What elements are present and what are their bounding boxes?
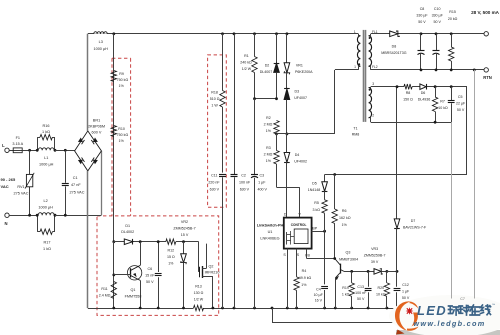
svg-text:D5: D5: [312, 182, 317, 186]
wire L input: [9, 150, 13, 152]
node RV1 top: [28, 149, 31, 152]
svg-text:R18: R18: [211, 90, 218, 94]
resistor R10: [111, 126, 116, 137]
svg-text:Q2: Q2: [209, 265, 214, 269]
svg-text:275 VAC: 275 VAC: [70, 190, 85, 194]
svg-text:BP: BP: [312, 227, 317, 231]
node top bus R9: [112, 32, 115, 35]
diode D5: [324, 175, 326, 182]
node rail subwire: [271, 307, 274, 310]
transistor Q3: [335, 259, 340, 265]
node C8 bottom: [420, 69, 423, 72]
svg-text:1 µF: 1 µF: [258, 181, 266, 185]
svg-text:Q1: Q1: [131, 288, 136, 292]
svg-text:www.ledgb.com: www.ledgb.com: [413, 319, 485, 328]
varistor RV1: [29, 150, 31, 215]
svg-text:2 MΩ: 2 MΩ: [264, 123, 273, 127]
capacitor C2: [234, 34, 236, 174]
resistor R19: [351, 271, 353, 283]
svg-text:1%: 1%: [119, 84, 125, 88]
wire Y cap right: [474, 70, 476, 299]
svg-text:D7: D7: [411, 219, 416, 223]
wire R9 column: [113, 34, 115, 242]
node R7 bottom: [434, 121, 437, 124]
svg-text:BAV21WS-7-F: BAV21WS-7-F: [403, 226, 427, 230]
node sense R6: [333, 173, 336, 176]
node R15 top: [450, 32, 453, 35]
resistor R12: [166, 239, 176, 244]
svg-text:100 nF: 100 nF: [355, 291, 367, 295]
wire S pin to rail: [287, 249, 289, 308]
svg-text:MBRS4201T3G: MBRS4201T3G: [381, 51, 407, 55]
dashed box dimming/bleeder block: [97, 216, 219, 316]
secondary winding: [369, 36, 372, 66]
node C5 top: [450, 85, 453, 88]
svg-text:C11: C11: [211, 174, 217, 178]
node Q1 collector: [139, 240, 142, 243]
svg-text:C4: C4: [316, 287, 321, 291]
svg-text:C8: C8: [420, 7, 425, 11]
svg-text:50 V: 50 V: [457, 108, 465, 112]
capacitor C5: [451, 87, 453, 101]
svg-text:R1: R1: [244, 54, 249, 58]
svg-text:R8: R8: [406, 91, 411, 95]
node rail C3: [253, 307, 256, 310]
svg-text:39 V: 39 V: [371, 260, 379, 264]
logo background: [396, 330, 500, 335]
resistor R5: [322, 200, 327, 213]
logo chinese text: [449, 306, 459, 315]
node RV1 bottom: [28, 214, 31, 217]
node C8 top: [420, 32, 423, 35]
svg-text:2 MΩ: 2 MΩ: [264, 153, 273, 157]
svg-text:1000 µH: 1000 µH: [39, 163, 54, 167]
svg-text:3.15 A: 3.15 A: [12, 142, 23, 146]
svg-text:VAC: VAC: [1, 184, 9, 189]
node R15 bottom: [450, 69, 453, 72]
capacitor C6: [158, 242, 160, 272]
node R7 top: [434, 85, 437, 88]
logo K mark: [395, 301, 419, 334]
svg-text:1%: 1%: [266, 129, 272, 133]
svg-text:R11: R11: [101, 287, 107, 291]
svg-text:90 - 265: 90 - 265: [1, 177, 16, 182]
ic U1 LinkSwitch-PH: [284, 218, 312, 249]
svg-text:C2: C2: [241, 174, 246, 178]
wire bias pin3: [371, 86, 404, 88]
svg-text:15 nF: 15 nF: [145, 274, 155, 278]
wire R11 column: [113, 242, 115, 308]
svg-text:P6KE200A: P6KE200A: [295, 70, 313, 74]
svg-text:R10: R10: [118, 127, 125, 131]
wire VR3 to C12: [387, 271, 397, 273]
diode D1: [124, 239, 132, 245]
node Q1 base tap: [112, 274, 115, 277]
wire Y cap left: [451, 122, 453, 298]
wire output plus: [371, 33, 390, 35]
node rail VR2: [182, 307, 185, 310]
wire RTN: [371, 69, 484, 71]
node C10 top: [435, 32, 438, 35]
node top bus R18: [221, 32, 224, 35]
svg-text:BR1: BR1: [93, 119, 100, 123]
svg-text:L2: L2: [43, 199, 47, 203]
svg-text:C6: C6: [147, 267, 152, 271]
wire drain node: [277, 133, 336, 135]
diode D6: [420, 84, 426, 90]
svg-text:D1: D1: [125, 224, 130, 228]
node rail C11: [221, 307, 224, 310]
wire N riser to bridge: [101, 151, 103, 215]
svg-text:R15: R15: [449, 10, 456, 14]
svg-text:VR2: VR2: [181, 220, 188, 224]
svg-text:R2: R2: [266, 116, 271, 120]
resistor R4: [294, 277, 299, 291]
svg-text:D: D: [284, 212, 287, 216]
svg-text:UF4007: UF4007: [294, 96, 307, 100]
wire F1 to L1: [22, 150, 37, 152]
resistor R2: [274, 121, 279, 135]
svg-text:R4: R4: [302, 269, 307, 273]
diode D2: [276, 34, 278, 63]
svg-text:2KBP06M: 2KBP06M: [88, 125, 105, 129]
capacitor C3: [254, 99, 256, 175]
svg-text:VR3: VR3: [371, 247, 378, 251]
svg-text:10 µF: 10 µF: [314, 293, 324, 297]
svg-text:3 kΩ: 3 kΩ: [312, 208, 320, 212]
svg-text:1 W: 1 W: [211, 103, 218, 107]
svg-text:330 µF: 330 µF: [432, 14, 444, 18]
node rail R4: [295, 307, 298, 310]
svg-text:2.4 MΩ: 2.4 MΩ: [99, 294, 111, 298]
svg-text:ZMM5245B-7: ZMM5245B-7: [173, 227, 195, 231]
svg-text:15 Ω: 15 Ω: [167, 255, 175, 259]
svg-text:150 Ω: 150 Ω: [403, 98, 413, 102]
node rail Q3 emitter: [334, 307, 337, 310]
svg-text:100 nF: 100 nF: [239, 181, 251, 185]
svg-text:400 V: 400 V: [257, 188, 267, 192]
svg-text:C12: C12: [402, 283, 409, 287]
node top bus R1: [253, 32, 256, 35]
inductor L1: [38, 148, 54, 151]
svg-text:FMMT558: FMMT558: [125, 295, 142, 299]
node C1 top: [64, 149, 67, 152]
svg-text:F1: F1: [16, 136, 20, 140]
wire top bus: [88, 33, 359, 35]
wire bridge minus to bottom rail: [87, 171, 89, 308]
capacitor C11: [219, 174, 226, 176]
node top bus D2: [275, 32, 278, 35]
terminal output plus: [484, 32, 488, 36]
svg-text:1/2 W: 1/2 W: [194, 298, 204, 302]
inductor L2: [38, 213, 54, 215]
capacitor C1: [65, 150, 67, 182]
svg-text:1 kΩ: 1 kΩ: [42, 130, 50, 134]
svg-text:1: 1: [354, 30, 356, 34]
diode D7: [396, 87, 398, 219]
node rail Q2 source: [212, 307, 215, 310]
capacitor C4: [324, 231, 326, 284]
node C10 bottom: [435, 69, 438, 72]
node rail R11: [112, 307, 115, 310]
svg-text:49.9 kΩ: 49.9 kΩ: [299, 276, 312, 280]
svg-text:1%: 1%: [301, 283, 307, 287]
svg-text:330 µF: 330 µF: [416, 14, 428, 18]
wire N input: [9, 215, 37, 217]
svg-text:R16: R16: [43, 124, 50, 128]
svg-text:U1: U1: [268, 230, 273, 234]
svg-text:240 kΩ: 240 kΩ: [240, 61, 252, 65]
dashed box R9/R10 damper network: [112, 57, 131, 59]
svg-text:630 V: 630 V: [210, 188, 220, 192]
svg-text:R12: R12: [168, 249, 175, 253]
resistor R6: [334, 175, 336, 210]
primary winding: [358, 34, 360, 36]
resistor R18: [222, 34, 224, 91]
wire bridge plus to top bus: [87, 34, 89, 131]
wire R4 pin: [296, 249, 298, 277]
svg-text:1N4148: 1N4148: [308, 188, 321, 192]
svg-text:R17: R17: [44, 241, 51, 245]
wire L1 to bridge: [55, 150, 75, 152]
svg-text:1000 µH: 1000 µH: [38, 205, 53, 209]
svg-text:N: N: [4, 221, 7, 226]
resistor R3: [274, 151, 279, 165]
svg-text:D4: D4: [295, 153, 300, 157]
resistor R20: [386, 271, 388, 283]
wire feedback sense: [325, 174, 467, 176]
svg-text:50 V: 50 V: [418, 20, 426, 24]
wire R1 D2 node: [255, 98, 277, 100]
svg-text:R7: R7: [440, 100, 445, 104]
svg-text:2: 2: [372, 113, 374, 117]
svg-text:Q3: Q3: [346, 250, 351, 254]
svg-text:LED: LED: [417, 303, 447, 318]
svg-text:DL4936: DL4936: [418, 98, 431, 102]
svg-text:RV1: RV1: [17, 185, 24, 189]
svg-text:D3: D3: [294, 90, 299, 94]
svg-text:R9: R9: [119, 72, 124, 76]
svg-text:1: 1: [354, 65, 356, 69]
svg-text:D8: D8: [392, 45, 397, 49]
node rail R19: [350, 307, 353, 310]
node rail S pin: [286, 307, 289, 310]
svg-text:20 kΩ: 20 kΩ: [448, 17, 458, 21]
inductor L3: [94, 29, 107, 34]
node rail C4: [323, 307, 326, 310]
svg-text:15 V: 15 V: [181, 233, 189, 237]
node RTN riser: [473, 69, 476, 72]
svg-text:L3: L3: [99, 40, 103, 44]
svg-text:630 V: 630 V: [240, 188, 250, 192]
svg-text:T1: T1: [353, 127, 357, 131]
svg-text:C5: C5: [458, 95, 463, 99]
svg-text:750 kΩ: 750 kΩ: [117, 133, 129, 137]
capacitor C12: [396, 271, 398, 286]
svg-text:50 V: 50 V: [357, 297, 365, 301]
svg-text:1 kΩ: 1 kΩ: [43, 247, 51, 251]
svg-text:C7: C7: [460, 297, 465, 301]
svg-text:22 µF: 22 µF: [456, 102, 466, 106]
node D7 C12: [396, 270, 399, 273]
svg-text:RTN: RTN: [483, 75, 492, 80]
svg-text:LinkSwitch-PH: LinkSwitch-PH: [257, 223, 284, 227]
svg-text:50 V: 50 V: [146, 280, 154, 284]
transistor Q1: [140, 242, 142, 266]
svg-text:1 µF: 1 µF: [402, 290, 410, 294]
svg-text:R5: R5: [314, 201, 319, 205]
capacitor C10: [436, 34, 438, 51]
svg-text:R19: R19: [342, 286, 349, 290]
node FB junction: [333, 257, 336, 260]
svg-text:MMBT3904: MMBT3904: [339, 258, 358, 262]
svg-text:FL2: FL2: [372, 65, 378, 69]
wire FB pin: [306, 249, 308, 259]
svg-text:10 kΩ: 10 kΩ: [376, 293, 386, 297]
svg-text:IRFR210: IRFR210: [205, 270, 220, 274]
svg-text:R6: R6: [342, 209, 347, 213]
svg-text:C1: C1: [73, 176, 78, 180]
svg-text:™: ™: [492, 303, 495, 307]
resistor R8 inline: [404, 84, 412, 89]
svg-text:D2: D2: [265, 64, 270, 68]
svg-text:1 kΩ: 1 kΩ: [342, 293, 350, 297]
resistor R16 parallel loop: [37, 137, 39, 150]
resistor R13 inline: [194, 305, 204, 310]
node R20 top: [386, 270, 389, 273]
resistor R1: [254, 34, 256, 57]
resistor R17 parallel loop: [37, 215, 39, 232]
bridge rectifier BR1: [75, 131, 102, 171]
wire R3 to V pin: [277, 187, 300, 189]
zener VR1: [286, 34, 288, 63]
svg-text:R20: R20: [378, 286, 385, 290]
capacitor C13: [368, 271, 370, 286]
svg-text:10 kΩ: 10 kΩ: [438, 106, 448, 110]
node BP: [323, 230, 326, 233]
wire L2 to bridge riser: [55, 215, 101, 217]
node C1 bottom: [64, 214, 67, 217]
node drain sense: [275, 133, 278, 136]
transformer T1 core: [363, 30, 365, 122]
svg-text:1%: 1%: [168, 262, 174, 266]
svg-text:DL4007: DL4007: [260, 70, 273, 74]
zener VR2: [183, 242, 185, 254]
svg-text:DL4002: DL4002: [121, 230, 134, 234]
diode D8: [390, 31, 398, 37]
svg-text:16 V: 16 V: [315, 298, 323, 302]
svg-text:1/2 W: 1/2 W: [242, 67, 252, 71]
svg-text:L: L: [2, 143, 5, 148]
wire D1 R12 VR2: [114, 241, 125, 243]
svg-text:3: 3: [372, 82, 374, 86]
node rail C6: [157, 307, 160, 310]
svg-text:C13: C13: [357, 285, 364, 289]
resistor R15: [451, 34, 453, 47]
svg-text:C3: C3: [259, 174, 264, 178]
terminal RTN: [484, 68, 488, 72]
svg-text:ZMM5259B-7: ZMM5259B-7: [364, 254, 386, 258]
svg-text:UF4002: UF4002: [294, 160, 307, 164]
node R19 top: [350, 270, 353, 273]
resistor R9: [111, 71, 116, 82]
mosfet Q2: [198, 242, 200, 272]
wire bias pin2: [371, 122, 451, 124]
node R10 bottom D1 wire: [112, 240, 115, 243]
node VR2 top: [182, 240, 185, 243]
node C13 top: [367, 270, 370, 273]
svg-text:50 V: 50 V: [402, 296, 410, 300]
svg-text:CONTROL: CONTROL: [291, 223, 307, 227]
svg-text:510 Ω: 510 Ω: [210, 97, 220, 101]
svg-text:LNK406EG: LNK406EG: [260, 237, 279, 241]
node top bus VR1: [286, 32, 289, 35]
svg-text:130 Ω: 130 Ω: [194, 291, 204, 295]
wire Q3 collector: [344, 271, 374, 273]
wire sub return: [272, 308, 274, 323]
svg-text:1%: 1%: [342, 223, 348, 227]
svg-text:220 nF: 220 nF: [208, 181, 220, 185]
svg-text:D6: D6: [421, 91, 426, 95]
terminal N: [5, 213, 9, 217]
dashed box R18/C11 snubber network: [208, 55, 227, 207]
node rail C2: [233, 307, 236, 310]
svg-text:R3: R3: [266, 146, 271, 150]
svg-text:VR1: VR1: [296, 64, 303, 68]
node rail R20: [386, 307, 389, 310]
bias winding: [369, 88, 372, 118]
svg-text:600 V: 600 V: [92, 131, 102, 135]
svg-text:1000 µH: 1000 µH: [93, 47, 108, 51]
diode D4: [284, 153, 290, 163]
svg-text:1%: 1%: [266, 159, 272, 163]
wire BP pin: [312, 231, 325, 233]
svg-text:C10: C10: [434, 7, 441, 11]
wire bias sense riser: [466, 87, 468, 175]
resistor R7: [435, 87, 437, 97]
svg-text:28 V, 500 mA: 28 V, 500 mA: [471, 10, 500, 15]
node top bus C2: [233, 32, 236, 35]
node clamp drain: [286, 133, 289, 136]
svg-text:L1: L1: [44, 156, 48, 160]
fuse F1: [13, 148, 22, 153]
terminal L: [5, 148, 9, 152]
capacitor C8: [420, 34, 422, 51]
node D7 top: [396, 85, 399, 88]
node rail C13: [367, 307, 370, 310]
node C6 top: [157, 240, 160, 243]
node rail Q1 emitter: [139, 307, 142, 310]
svg-text:750 kΩ: 750 kΩ: [117, 78, 129, 82]
zener VR3 inline: [374, 269, 381, 275]
diode D3: [284, 89, 290, 100]
svg-text:R13: R13: [195, 285, 202, 289]
svg-text:1%: 1%: [119, 139, 125, 143]
svg-text:47 nF: 47 nF: [71, 183, 81, 187]
svg-text:50 V: 50 V: [433, 20, 441, 24]
svg-text:RM8: RM8: [352, 133, 360, 137]
svg-text:162 kΩ: 162 kΩ: [339, 216, 351, 220]
wire bottom rail: [88, 308, 194, 310]
resistor R11: [111, 282, 116, 299]
svg-text:275 VAC: 275 VAC: [14, 192, 29, 196]
